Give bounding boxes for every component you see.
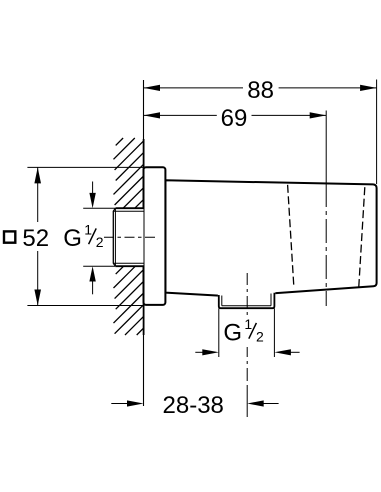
left thread chamfer line [114,208,116,266]
dim 88 line [144,87,244,89]
svg-text:2: 2 [256,329,264,345]
svg-text:69: 69 [221,105,248,132]
outlet root bottom [222,305,271,307]
outlet centerline [246,273,248,316]
wall hatch upper band [114,138,144,208]
outlet root left [221,296,223,306]
dim 28-38 arrow right [262,403,279,405]
wall hatch lower band [114,266,144,335]
left G1/2 arrow up [92,280,94,294]
bottom G1/2 text [223,316,264,346]
dim 52 arrow top [34,167,41,183]
holder axis centerline [325,111,327,204]
flange plate [144,167,166,305]
left thread root bottom [113,262,143,264]
dim 52 extension top [27,166,143,168]
left inlet thread white backing [113,208,143,266]
left G1/2 ext top [83,207,115,209]
inlet centerline [104,236,155,238]
svg-text:2: 2 [96,234,104,250]
svg-text:G: G [223,319,242,346]
bottom G1/2 arrow left [195,351,204,353]
bottom G1/2 arrow right [288,351,300,353]
outlet outline [219,293,275,308]
left thread crest bottom [115,265,143,267]
left thread crest top [115,207,143,209]
dim 69 arrow right [310,112,327,118]
left G1/2 arrow down [92,182,94,197]
dim 88 right extension [376,80,378,185]
dim 52 line [37,167,39,222]
hidden cone right dashed line [359,187,365,286]
svg-text:28-38: 28-38 [163,392,224,419]
svg-text:88: 88 [247,77,274,104]
dim 69 arrow left [144,112,161,118]
left G1/2 ext bottom [83,265,115,267]
dim 28-38 arrow left [111,403,128,405]
dim 88 arrow right [360,85,377,91]
hidden cone left dashed line [288,185,294,288]
dim 69 line [144,114,217,116]
left thread root top [113,210,143,212]
dim 88 arrow left [144,85,161,91]
bottom G1/2 ext right [273,308,275,357]
bottom G1/2 ext left [218,308,220,357]
wall surface line [143,80,145,139]
left G1/2 text [63,221,104,251]
square symbol [4,231,15,242]
dim 52 extension bottom [27,305,143,307]
left thread end face [113,208,115,266]
body outline [165,180,376,295]
outlet thread white backing [218,292,275,309]
svg-text:52: 52 [22,225,49,252]
dim 52 arrow bottom [34,290,41,306]
outlet root right [270,294,272,306]
svg-text:1: 1 [84,221,92,237]
svg-text:1: 1 [244,316,252,332]
svg-text:G: G [63,225,82,252]
